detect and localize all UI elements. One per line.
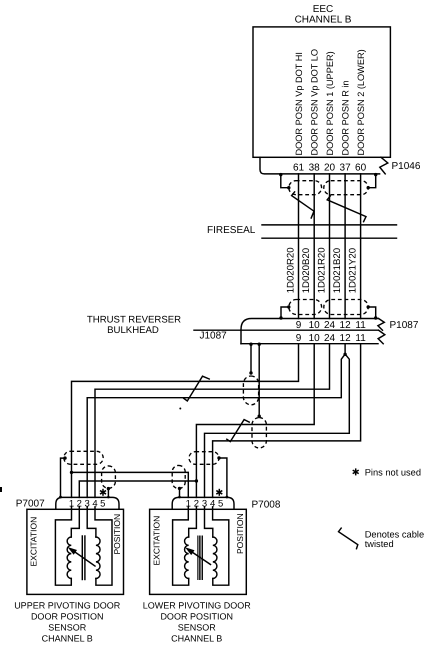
svg-text:DOOR POSN 2 (LOWER): DOOR POSN 2 (LOWER): [356, 49, 366, 155]
svg-text:1D020B20: 1D020B20: [301, 248, 312, 293]
svg-text:60: 60: [355, 163, 367, 174]
svg-text:POSITION: POSITION: [112, 514, 122, 555]
svg-text:twisted: twisted: [365, 539, 394, 549]
svg-text:EXCITATION: EXCITATION: [28, 517, 38, 567]
svg-text:BULKHEAD: BULKHEAD: [107, 325, 159, 336]
svg-text:FIRESEAL: FIRESEAL: [207, 225, 256, 236]
svg-text:11: 11: [355, 320, 366, 331]
svg-text:24: 24: [324, 333, 336, 344]
svg-text:1D021B20: 1D021B20: [332, 248, 343, 293]
svg-text:1D021R20: 1D021R20: [316, 247, 327, 293]
svg-text:DOOR POSITION: DOOR POSITION: [160, 611, 233, 621]
svg-text:9: 9: [296, 333, 302, 344]
svg-text:9: 9: [296, 320, 302, 331]
svg-text:DOOR POSN R in: DOOR POSN R in: [341, 80, 351, 155]
svg-text:LOWER PIVOTING DOOR: LOWER PIVOTING DOOR: [143, 600, 252, 610]
svg-text:P7008: P7008: [252, 500, 281, 511]
svg-text:DOOR POSN Vp DOT LO: DOOR POSN Vp DOT LO: [310, 49, 320, 156]
svg-text:4: 4: [92, 499, 97, 510]
svg-text:10: 10: [309, 333, 321, 344]
svg-text:EXCITATION: EXCITATION: [151, 516, 161, 566]
svg-text:J1087: J1087: [200, 331, 228, 342]
svg-text:3: 3: [202, 499, 207, 510]
svg-text:DOOR POSN 1 (UPPER): DOOR POSN 1 (UPPER): [325, 51, 335, 155]
svg-text:EEC: EEC: [313, 4, 334, 15]
svg-text:Pins not used: Pins not used: [365, 468, 421, 478]
svg-text:Denotes cable: Denotes cable: [365, 530, 424, 540]
svg-text:1D021Y20: 1D021Y20: [348, 248, 359, 293]
svg-text:12: 12: [340, 333, 352, 344]
svg-text:20: 20: [324, 163, 336, 174]
svg-text:SENSOR: SENSOR: [48, 622, 87, 632]
svg-text:10: 10: [309, 320, 321, 331]
svg-text:37: 37: [340, 163, 352, 174]
svg-text:11: 11: [355, 333, 366, 344]
svg-text:CHANNEL B: CHANNEL B: [171, 633, 222, 643]
svg-text:CHANNEL B: CHANNEL B: [42, 633, 93, 643]
svg-text:P7007: P7007: [16, 498, 45, 509]
svg-text:POSITION: POSITION: [235, 513, 245, 554]
svg-text:4: 4: [210, 499, 215, 510]
svg-text:P1087: P1087: [390, 320, 419, 331]
svg-text:38: 38: [309, 163, 321, 174]
svg-text:5: 5: [218, 499, 223, 510]
svg-text:12: 12: [340, 320, 352, 331]
svg-text:1D020R20: 1D020R20: [285, 247, 296, 293]
svg-text:DOOR POSN Vp DOT HI: DOOR POSN Vp DOT HI: [294, 52, 304, 155]
svg-text:P1046: P1046: [392, 161, 421, 172]
svg-text:2: 2: [77, 499, 82, 510]
svg-text:SENSOR: SENSOR: [178, 622, 217, 632]
svg-text:CHANNEL B: CHANNEL B: [295, 15, 352, 26]
svg-text:24: 24: [324, 320, 336, 331]
svg-text:DOOR POSITION: DOOR POSITION: [31, 611, 104, 621]
svg-text:1: 1: [69, 499, 74, 510]
svg-text:5: 5: [100, 499, 105, 510]
svg-text:1: 1: [186, 499, 191, 510]
svg-text:3: 3: [85, 499, 90, 510]
svg-text:UPPER PIVOTING DOOR: UPPER PIVOTING DOOR: [14, 600, 121, 610]
svg-text:61: 61: [293, 163, 305, 174]
svg-text:2: 2: [194, 499, 199, 510]
